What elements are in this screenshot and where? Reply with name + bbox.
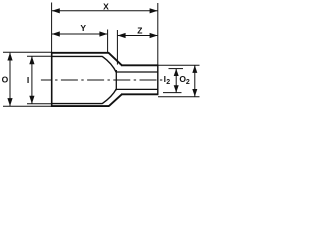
extension line O2 top	[158, 64, 200, 66]
part outline: small section outer bottom	[121, 93, 158, 95]
extension line I2 top	[169, 68, 184, 70]
part outline: small section inner bottom	[116, 88, 157, 90]
part outline: big section inner bottom	[52, 103, 103, 105]
extension line I bottom	[27, 103, 52, 105]
dimension Z line	[118, 33, 158, 38]
part outline: left edge	[51, 52, 53, 107]
part outline: small section inner top	[116, 71, 157, 73]
part outline: inner taper bottom curve	[102, 89, 116, 104]
part outline: outer taper top	[109, 53, 122, 66]
extension line Z start	[116, 30, 118, 65]
label O2	[179, 74, 190, 86]
extension line O2 bottom	[158, 96, 200, 98]
part outline: big section outer top	[51, 52, 109, 54]
centerline (dash-dot)	[41, 79, 162, 81]
part outline: inner shoulder	[115, 70, 117, 90]
svg-text:O: O	[2, 75, 9, 85]
extension line O top	[3, 51, 52, 53]
extension line Y end	[107, 30, 109, 53]
dimension O line	[7, 53, 12, 107]
dimension I line	[29, 56, 34, 103]
svg-text:2: 2	[166, 79, 170, 86]
part outline: big section outer bottom	[51, 105, 109, 107]
dimension I2 line	[174, 69, 179, 93]
extension line left (part left edge, above part)	[51, 3, 53, 53]
part outline: small section outer top	[121, 64, 158, 66]
dimension Y line	[52, 31, 108, 36]
extension line I top	[27, 55, 52, 57]
label I2	[164, 74, 171, 86]
part outline: right end cap	[157, 65, 159, 95]
svg-text:Z: Z	[137, 25, 142, 35]
dimension O2 line	[192, 65, 197, 96]
svg-text:X: X	[103, 1, 109, 11]
extension line right (part end, above part)	[157, 3, 159, 65]
part outline: big section inner top	[52, 55, 103, 57]
part outline: inner taper top curve	[102, 56, 116, 72]
svg-text:2: 2	[186, 79, 190, 86]
part outline: outer taper bottom	[109, 94, 122, 106]
dimension X line	[52, 8, 158, 13]
extension line I2 bottom	[163, 92, 182, 94]
extension line O bottom	[3, 105, 52, 107]
svg-text:Y: Y	[80, 23, 86, 33]
svg-text:I: I	[27, 75, 29, 85]
